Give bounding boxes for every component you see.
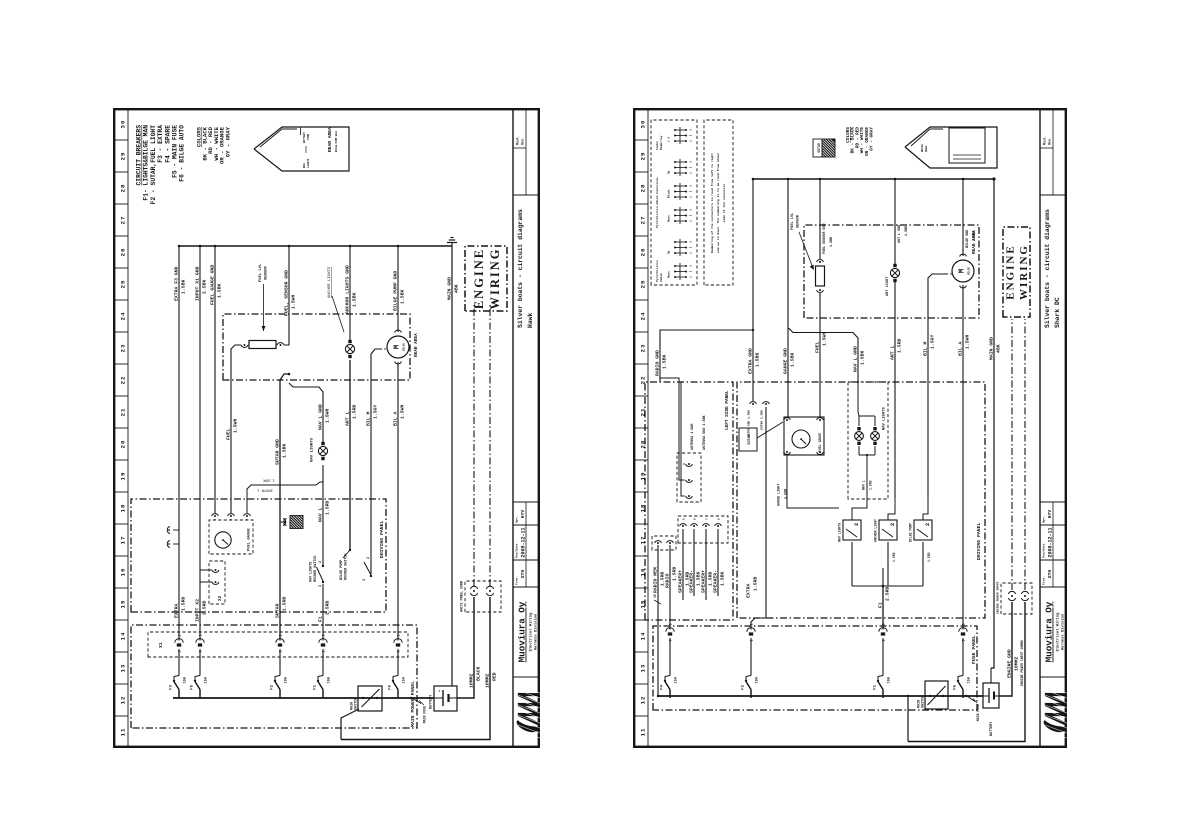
svg-text:ANTENNA GND 1.5BK: ANTENNA GND 1.5BK [703,414,707,450]
wire BILGE PUMP GND [397,246,399,332]
white panel connector [460,581,502,612]
svg-text:RADIO MEM: RADIO MEM [652,567,658,593]
wire BIL A [397,362,399,641]
svg-text:EXTRA GND: EXTRA GND [747,348,753,374]
svg-text:14: 14 [120,632,127,641]
svg-text:RADIO GND: RADIO GND [654,350,660,376]
sutar unit [739,422,783,451]
svg-text:1.5BK: 1.5BK [216,283,222,298]
svg-text:29: 29 [640,152,647,161]
svg-text:SUTAR: SUTAR [748,433,752,444]
svg-text:FUEL LVL: FUEL LVL [791,213,795,230]
svg-text:12: 12 [640,696,647,705]
svg-text:1.5WH: 1.5WH [232,418,238,433]
svg-text:3: 3 [690,185,693,187]
wire BILGE GND [962,179,964,256]
fuse F2 [750,690,752,699]
svg-text:Pyrstöliitin: Pyrstöliitin [655,260,659,282]
svg-text:1.5BK: 1.5BK [281,443,287,458]
svg-text:Hyv.: Hyv. [1043,516,1046,523]
fuse F3 [178,690,180,699]
wire bilge switch out [923,498,928,520]
svg-text:10MM2: 10MM2 [468,673,474,688]
fuse F6 [397,690,399,699]
switch feed bus [852,585,923,587]
svg-text:BIL A: BIL A [392,411,398,426]
fuel level sender [816,260,825,293]
svg-text:+: + [439,690,443,692]
svg-text:5: 5 [963,639,967,641]
svg-text:27: 27 [120,216,127,225]
speaker connector strip [678,516,728,543]
wire ANCHOR LIGHTS GND [349,246,351,340]
svg-text:1.5RD: 1.5RD [752,576,758,591]
svg-text:BIL M: BIL M [922,341,928,356]
wire FUEL SENSOR GND [819,179,821,259]
pin fuse panel 1 [669,638,671,676]
company logo [514,684,540,739]
svg-text:NAV LIGHTS: NAV LIGHTS [883,406,887,430]
svg-text:GAUGE GND: GAUGE GND [782,348,788,374]
svg-text:3: 3 [690,265,693,267]
svg-text:1.5RD: 1.5RD [896,338,902,353]
rear area box [804,225,979,318]
svg-text:Harness Division: Harness Division [1061,613,1066,650]
svg-text:F1- LIGHTS&BILGE MAN: F1- LIGHTS&BILGE MAN [143,125,150,201]
svg-text:FUEL GAUGE: FUEL GAUGE [248,527,252,551]
svg-text:ROCKER SWITCH: ROCKER SWITCH [345,554,349,580]
svg-text:BATTERY: BATTERY [430,694,434,709]
svg-text:WIRING: WIRING [488,247,502,309]
svg-text:SUTAR GND: SUTAR GND [274,439,280,465]
wire ANT L GND [894,179,896,264]
svg-text:Harness Division: Harness Division [534,613,539,650]
svg-text:Silver boats - circuit diagram: Silver boats - circuit diagrams [517,209,524,328]
svg-text:2: 2 [889,523,896,526]
svg-text:EXTRA F3 GND: EXTRA F3 GND [173,266,179,301]
svg-text:GY - GRAY: GY - GRAY [225,126,232,157]
wire FUEL GAUGE GND [214,246,216,513]
svg-text:ENGINE POWER INPUT 10MM2: ENGINE POWER INPUT 10MM2 [1020,640,1024,686]
svg-text:11: 11 [640,728,647,737]
svg-text:EXTRA 1.5RD: EXTRA 1.5RD [761,410,764,430]
svg-text:2: 2 [924,523,931,526]
svg-text:Muut.: Muut. [1042,135,1046,145]
connector pinout legend box [651,120,697,285]
svg-text:Pvm/Date: Pvm/Date [515,543,519,558]
svg-text:10A: 10A [183,676,187,683]
svg-text:1.5GY: 1.5GY [929,334,935,349]
svg-text:1.5BK: 1.5BK [789,352,795,367]
svg-text:1.5WH: 1.5WH [821,331,827,346]
svg-text:Muoviura Oy: Muoviura Oy [517,601,528,662]
svg-text:FUEL: FUEL [814,341,820,353]
label FUEL LVL SENSOR with arrow [259,263,269,331]
svg-text:ANT L GND: ANT L GND [898,225,902,243]
wire INPUT X2 [199,246,201,641]
svg-text:4: 4 [670,639,674,641]
svg-text:15A: 15A [204,676,208,683]
svg-text:1.5WH: 1.5WH [290,294,296,309]
svg-text:19: 19 [120,472,127,481]
svg-text:2: 2 [690,246,693,248]
svg-text:MAIN FUSE: MAIN FUSE [423,706,427,723]
svg-text:2: 2 [690,270,693,272]
pin X1-3 [279,649,281,676]
main power panel box [131,625,417,728]
wire MAIN GND [451,246,453,686]
svg-text:M: M [394,344,402,349]
svg-text:Pvm/Date: Pvm/Date [1042,543,1046,558]
svg-text:INPUT X2: INPUT X2 [194,599,200,622]
svg-text:15: 15 [120,600,127,609]
svg-text:13: 13 [120,664,127,673]
svg-text:1.5WH: 1.5WH [324,408,330,423]
fuse F1 [882,690,884,699]
svg-text:1.5BK: 1.5BK [180,279,186,294]
svg-text:F5 - MAIN FUSE: F5 - MAIN FUSE [172,125,179,178]
svg-text:1.5OR: 1.5OR [263,478,275,482]
extra output pins [763,402,770,404]
svg-text:SPEAKER-: SPEAKER- [688,570,694,593]
legend circuit breakers [136,125,186,205]
svg-text:ANCHOR LIGHT: ANCHOR LIGHT [874,519,878,542]
wire engine feed dash-dot [1011,319,1013,590]
anchor light lamp [345,340,354,358]
ground bus [753,178,994,180]
svg-text:18: 18 [120,504,127,513]
svg-text:1.5RD: 1.5RD [671,566,677,581]
svg-text:2008-12-11: 2008-12-11 [521,527,527,557]
svg-text:STH: STH [520,570,526,579]
fuel gauge [209,514,253,554]
svg-text:NAV L GND: NAV L GND [852,346,858,372]
svg-text:1.5BK: 1.5BK [905,225,909,236]
wire battery plus cable [907,696,909,742]
svg-text:M: M [959,268,967,273]
wire GAUGE LIGHT [787,455,839,508]
svg-text:BILGE PUMP WELL: BILGE PUMP WELL [335,130,338,152]
wire FUEL SENSOR GND [284,246,289,345]
sheet 2: Shark DC wiring diagram (rotated page) [633,108,1067,748]
svg-text:NAV L GND: NAV L GND [317,404,323,430]
wire SPEAKER 1 [682,529,684,600]
svg-text:10A: 10A [284,676,288,683]
bilge pump rocker switch [340,554,372,581]
wire battery minus cable [457,597,474,698]
svg-text:Adisk: Adisk [659,273,663,282]
boat outline top view [905,127,997,168]
svg-text:FUEL, SENSOR GND: FUEL, SENSOR GND [283,270,289,316]
svg-text:Form.: Form. [516,576,519,585]
wire EXTRA GND [752,179,754,401]
svg-text:2008-12-11: 2008-12-11 [1048,527,1054,557]
svg-text:ANCHOR LIGHTS: ANCHOR LIGHTS [328,266,332,298]
svg-text:WHITE PANEL CONN: WHITE PANEL CONN [460,581,464,612]
svg-text:Funkt: Funkt [655,141,659,150]
svg-text:1.5RD: 1.5RD [351,404,357,419]
wire GAUGE GND [787,179,789,417]
svg-text:1: 1 [690,276,693,278]
svg-text:Electrical Wiring: Electrical Wiring [529,612,534,651]
wire RADIO [669,545,671,630]
svg-text:1.5BK: 1.5BK [351,292,357,307]
svg-text:2: 2 [690,190,693,192]
wire NAV L [322,584,324,641]
svg-text:1: 1 [883,639,887,641]
svg-text:Hawk: Hawk [527,312,534,328]
svg-text:2.5RD: 2.5RD [884,586,890,601]
svg-text:F4 - SPARE: F4 - SPARE [164,125,171,163]
fuse F4 [669,690,671,699]
nav lights lamp [311,437,328,462]
svg-text:F3 - EXTRA: F3 - EXTRA [157,125,164,163]
bilge pump motor [950,254,974,288]
wire battery minus cable [999,602,1012,696]
pin fuse panel 2 [750,638,752,676]
svg-text:F2: F2 [271,684,275,689]
svg-text:1: 1 [690,196,693,198]
svg-text:3: 3 [690,209,693,211]
svg-text:SUTAR: SUTAR [274,603,280,618]
svg-text:22: 22 [640,376,647,385]
rocker switch NAV LIGHTS [838,520,862,542]
wire FUEL [231,345,241,513]
svg-text:Down: Down [668,215,671,222]
legend wire colors [846,127,875,156]
svg-text:3: 3 [690,241,693,243]
svg-text:FUEL: FUEL [225,428,231,440]
svg-text:4BK: 4BK [453,284,459,293]
wire BIL A [962,285,964,630]
svg-text:1: 1 [323,650,327,652]
svg-text:1.5RD: 1.5RD [281,596,287,611]
wire NAV L GND [789,328,859,382]
svg-text:STH: STH [1047,570,1053,579]
svg-text:GY - GRAY: GY - GRAY [870,127,875,151]
svg-text:22: 22 [120,376,127,385]
svg-text:1.5BK: 1.5BK [661,354,667,369]
fuse F2 [279,690,281,699]
wire SUTAR [279,380,281,641]
svg-text:15A: 15A [674,676,678,683]
left side panel box [645,382,733,620]
svg-text:5: 5 [398,650,402,652]
svg-text:28: 28 [120,184,127,193]
svg-text:2: 2 [367,557,371,559]
wire NAV L GND [289,383,323,442]
svg-text:2: 2 [690,134,693,136]
svg-text:LIGHTS: LIGHTS [307,158,310,168]
pin fuse panel 4 [962,638,964,676]
svg-text:6: 6 [200,650,204,652]
svg-text:ANT L: ANT L [889,345,895,360]
svg-text:side of the connector: side of the connector [722,183,726,222]
svg-text:1.5RD: 1.5RD [324,500,330,515]
svg-text:RED: RED [491,672,497,681]
sutar legend symbol [813,131,835,167]
wire FUEL [819,293,821,417]
svg-text:12: 12 [120,696,127,705]
svg-text:Silver boats - circuit diagram: Silver boats - circuit diagrams [1044,209,1051,328]
svg-text:Pyrstöliitin Adisk Functions: Pyrstöliitin Adisk Functions [655,177,659,228]
svg-text:SWITCH: SWITCH [355,698,359,710]
fuel gauge [784,417,824,455]
svg-text:MAIN GND: MAIN GND [446,277,452,300]
svg-text:F2: F2 [742,684,746,689]
svg-text:F5: F5 [191,684,195,689]
nav lamps wiring [858,382,875,457]
svg-text:Numbering of the connectors is: Numbering of the connectors is read from… [710,153,714,253]
svg-text:ANCHOR LIGHTS GND: ANCHOR LIGHTS GND [344,265,350,314]
wire BIL M [371,349,382,574]
wire SPEAKER 3 [705,529,707,600]
wire BIL M [928,274,948,498]
svg-text:1.5RD: 1.5RD [180,596,186,611]
radio connector [652,536,676,550]
svg-text:FUEL SENSOR GND: FUEL SENSOR GND [823,223,827,254]
boat outline top view [254,127,349,171]
svg-text:HYV: HYV [520,510,526,519]
svg-text:1.5WH: 1.5WH [964,334,970,349]
svg-text:INSTR L: INSTR L [256,488,273,492]
svg-text:Blade: Blade [667,189,671,198]
svg-text:28: 28 [640,184,647,193]
svg-text:26: 26 [640,248,647,257]
wire SPEAKER 4 [717,529,719,596]
grid number strip [127,108,129,748]
svg-text:F2 - SUTAR,FUEL LIGHT: F2 - SUTAR,FUEL LIGHT [150,125,157,205]
main switch [351,686,383,711]
svg-text:SENSOR: SENSOR [797,214,801,228]
svg-text:HYV: HYV [1047,510,1053,519]
revision cells [1040,194,1065,196]
svg-text:NAV LIGHTS: NAV LIGHTS [838,523,842,542]
svg-text:BATTERY: BATTERY [990,721,994,736]
svg-text:15A: 15A [402,676,406,683]
battery [983,683,999,736]
svg-text:F1: F1 [874,684,878,689]
svg-text:3: 3 [690,129,693,131]
svg-text:Rev.: Rev. [520,137,524,145]
svg-text:Hyv.: Hyv. [516,516,519,523]
svg-text:15A: 15A [967,676,971,683]
svg-text:EXTRA GND 1.5BK: EXTRA GND 1.5BK [748,410,751,437]
svg-text:ANT L: ANT L [344,411,350,426]
svg-text:LEFT SIDE PANEL: LEFT SIDE PANEL [725,390,730,430]
svg-text:2: 2 [690,214,693,216]
svg-text:MAIN POWER PANEL: MAIN POWER PANEL [410,681,416,727]
svg-text:23: 23 [120,344,127,353]
svg-text:2: 2 [751,639,755,641]
svg-text:BILGE: BILGE [968,267,971,275]
svg-text:30: 30 [120,120,127,129]
rocker switch ANCHOR LIGHT [874,519,898,542]
svg-text:29: 29 [120,152,127,161]
wire MAIN GND [990,668,992,683]
bilge+anchor switch feed [322,564,324,566]
svg-text:Up: Up [668,170,671,174]
wire ANTENNA GND [660,378,683,480]
wire engine return dash-dot [1024,319,1026,590]
svg-text:3: 3 [690,161,693,163]
svg-text:1: 1 [690,252,693,254]
ground bus [179,245,452,247]
svg-text:6: 6 [694,518,697,520]
svg-text:FUEL GAUGE: FUEL GAUGE [818,433,822,452]
svg-text:Rev.: Rev. [1047,137,1051,145]
svg-text:17: 17 [120,536,127,545]
svg-text:1: 1 [690,140,693,142]
anchor light lamp [886,264,900,296]
svg-text:10A: 10A [887,676,891,683]
svg-text:FUEL LVL: FUEL LVL [259,263,263,282]
svg-text:1.5GY: 1.5GY [372,404,378,419]
svg-text:Muoviura Oy: Muoviura Oy [1044,601,1055,662]
svg-text:F4: F4 [661,684,665,689]
main fuse on battery lead [965,695,980,721]
svg-text:F1: F1 [314,684,318,689]
svg-text:2: 2 [319,561,323,563]
bilge pump motor [384,330,409,364]
svg-text:3: 3 [319,585,323,587]
svg-text:REAR AREA: REAR AREA [414,333,419,357]
ground symbol [992,177,995,180]
svg-text:BILGE PUMP GND: BILGE PUMP GND [392,271,398,311]
svg-text:11: 11 [120,728,127,737]
svg-text:BILGE: BILGE [403,343,406,351]
wire EXTRA [178,246,180,641]
svg-text:MAIN GND: MAIN GND [988,337,994,360]
svg-text:Moderley: Moderley [659,135,663,150]
svg-text:CIRCUIT BREAKERS: CIRCUIT BREAKERS [136,125,143,186]
svg-text:10MM2: 10MM2 [1013,656,1019,671]
svg-text:DRIVING PANEL: DRIVING PANEL [976,522,982,560]
svg-text:BATTERY: BATTERY [303,132,306,143]
svg-text:1.5OR: 1.5OR [784,488,788,499]
svg-text:REAR AREA: REAR AREA [327,127,333,152]
fuse F5 [962,690,964,699]
pin X1-1 [178,649,180,676]
svg-text:ENGINE: ENGINE [1005,244,1017,299]
svg-text:Down: Down [668,271,671,278]
sheet 1: Hawk wiring diagram (rotated page) [113,108,540,748]
wire SPEAKER 2 [693,529,695,596]
wire EXTRA [751,407,766,630]
rear area box [223,314,410,380]
svg-text:16: 16 [120,568,127,577]
svg-text:DRIVE: DRIVE [921,144,924,152]
svg-text:1.5WH: 1.5WH [399,404,405,419]
antenna connector [677,453,701,502]
grid number strip [647,108,649,748]
svg-text:ANT LIGHT: ANT LIGHT [886,276,890,296]
svg-text:1.5RD: 1.5RD [892,552,896,562]
power bus [658,695,983,697]
wire RADIO GND [660,330,753,382]
svg-text:5: 5 [683,518,686,520]
svg-text:2: 2 [853,523,860,526]
nav lights rocker switch [310,556,325,587]
svg-text:4BK: 4BK [995,344,1001,353]
fuse panel box [653,626,977,710]
driving panel box [131,499,386,612]
nav lamp 1 [855,427,864,445]
svg-text:ENGINE: ENGINE [472,248,486,309]
wire SUTAR GND [280,374,289,380]
svg-text:SENSOR: SENSOR [265,266,269,280]
connector extra output [167,527,179,548]
